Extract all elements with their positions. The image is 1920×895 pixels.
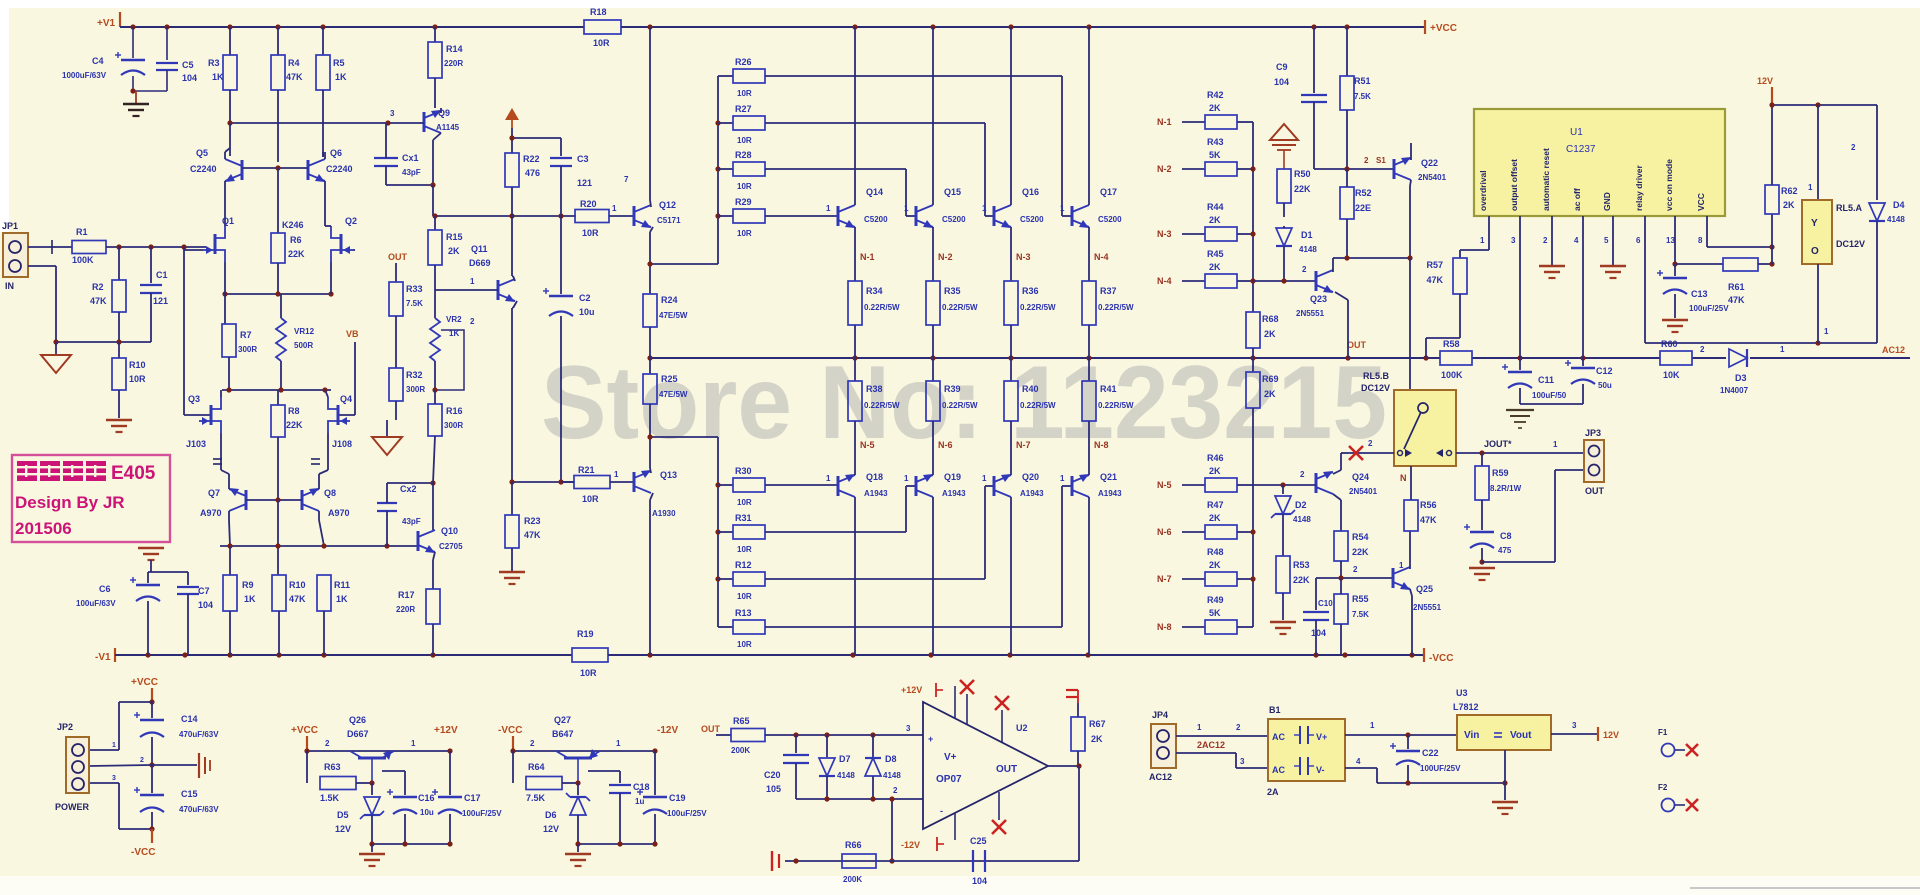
transistor Q8 bbox=[301, 490, 304, 510]
svg-text:2N5401: 2N5401 bbox=[1418, 173, 1447, 182]
ground under C13 bbox=[1662, 319, 1688, 322]
wire U1 pin5 stub bbox=[1612, 216, 1614, 265]
svg-text:Q11: Q11 bbox=[471, 244, 488, 254]
svg-text:47K: 47K bbox=[1420, 515, 1437, 525]
wire jp2 pin1 path bbox=[119, 701, 152, 703]
capacitor C25 bbox=[972, 850, 974, 872]
svg-text:2: 2 bbox=[470, 317, 475, 326]
svg-text:B1: B1 bbox=[1269, 705, 1281, 715]
resistor R12 bbox=[718, 578, 733, 580]
connector JP4 bbox=[1151, 724, 1176, 768]
svg-text:50u: 50u bbox=[1598, 381, 1612, 390]
svg-text:U1: U1 bbox=[1570, 127, 1583, 138]
svg-text:C19: C19 bbox=[669, 793, 686, 803]
transistor Q13 bbox=[610, 481, 634, 483]
svg-text:C2240: C2240 bbox=[190, 164, 217, 174]
svg-text:C2: C2 bbox=[579, 293, 591, 303]
svg-text:R17: R17 bbox=[398, 590, 415, 600]
transistor Q18 bbox=[837, 476, 840, 496]
wire U1 pin4 to C12 bbox=[1582, 216, 1584, 358]
svg-text:R2: R2 bbox=[92, 282, 104, 292]
resistor R55 bbox=[1334, 594, 1348, 624]
svg-text:100uF/63V: 100uF/63V bbox=[76, 599, 116, 608]
svg-text:220R: 220R bbox=[444, 59, 463, 68]
transistor Q23 bbox=[1315, 271, 1318, 291]
svg-text:-: - bbox=[940, 806, 943, 816]
svg-text:R31: R31 bbox=[735, 513, 752, 523]
svg-text:AC: AC bbox=[1272, 765, 1285, 775]
svg-text:476: 476 bbox=[525, 168, 540, 178]
svg-text:10R: 10R bbox=[737, 136, 752, 145]
svg-text:4148: 4148 bbox=[1293, 515, 1311, 524]
resistor R42 bbox=[1182, 121, 1205, 123]
svg-text:R29: R29 bbox=[735, 197, 752, 207]
svg-text:R20: R20 bbox=[580, 199, 597, 209]
svg-text:JP4: JP4 bbox=[1152, 710, 1168, 720]
svg-text:104: 104 bbox=[972, 876, 987, 886]
svg-text:R6: R6 bbox=[290, 235, 302, 245]
relay switch symbol bbox=[1418, 403, 1428, 413]
svg-text:0.22R/5W: 0.22R/5W bbox=[864, 303, 900, 312]
svg-text:22K: 22K bbox=[1294, 184, 1311, 194]
svg-text:Q9: Q9 bbox=[438, 108, 450, 118]
diode D1 bbox=[1276, 228, 1292, 246]
svg-text:R42: R42 bbox=[1207, 90, 1224, 100]
wire node row y123 bbox=[230, 122, 419, 124]
svg-text:R46: R46 bbox=[1207, 453, 1224, 463]
resistor R66 bbox=[842, 854, 876, 868]
svg-text:100K: 100K bbox=[1441, 370, 1463, 380]
transistor Q7 bbox=[245, 490, 248, 510]
ground mid triangle bbox=[386, 420, 388, 437]
transistor Q14 bbox=[837, 206, 840, 226]
svg-text:2: 2 bbox=[1368, 439, 1373, 448]
svg-text:2K: 2K bbox=[1209, 215, 1221, 225]
svg-text:Q1: Q1 bbox=[222, 216, 234, 226]
svg-text:VR2: VR2 bbox=[446, 315, 462, 324]
capacitor C2 bbox=[560, 216, 562, 294]
wire servo lower row bbox=[796, 798, 892, 800]
resistor R5 bbox=[322, 27, 324, 55]
svg-text:-VCC: -VCC bbox=[1429, 653, 1453, 664]
svg-text:R30: R30 bbox=[735, 466, 752, 476]
svg-text:V+: V+ bbox=[944, 752, 957, 763]
svg-text:2K: 2K bbox=[1209, 466, 1221, 476]
resistor R37 emitter bbox=[1088, 240, 1090, 281]
diode D3 bbox=[1729, 349, 1747, 367]
svg-text:R60: R60 bbox=[1661, 339, 1678, 349]
svg-text:N-6: N-6 bbox=[1157, 527, 1172, 537]
svg-text:12V: 12V bbox=[335, 824, 351, 834]
ground U1 pin2 bbox=[1539, 265, 1565, 268]
resistor R45 bbox=[1182, 280, 1205, 282]
svg-text:N-1: N-1 bbox=[1157, 117, 1172, 127]
resistor R30 bbox=[718, 484, 733, 486]
svg-text:1: 1 bbox=[616, 739, 621, 748]
potentiometer VR2 bbox=[434, 290, 436, 318]
svg-text:1: 1 bbox=[112, 742, 116, 749]
svg-text:C5200: C5200 bbox=[942, 215, 966, 224]
svg-text:2: 2 bbox=[325, 739, 330, 748]
wire R29 to Q14 base bbox=[765, 215, 838, 217]
connector JP1 bbox=[3, 233, 28, 277]
svg-text:C8: C8 bbox=[1500, 531, 1512, 541]
svg-text:104: 104 bbox=[182, 73, 197, 83]
svg-text:Q10: Q10 bbox=[441, 526, 458, 536]
wire B1 V+ out bbox=[1345, 734, 1457, 736]
svg-text:470uF/63V: 470uF/63V bbox=[179, 730, 219, 739]
resistor R46 bbox=[1182, 484, 1205, 486]
resistor R3 bbox=[229, 27, 231, 55]
svg-text:R22: R22 bbox=[523, 154, 540, 164]
svg-text:Vin: Vin bbox=[1464, 730, 1479, 741]
transistor Q21 bbox=[1071, 476, 1074, 496]
svg-text:12V: 12V bbox=[1603, 730, 1619, 740]
svg-text:Design By JR: Design By JR bbox=[15, 493, 125, 512]
wire emitter row y546 bbox=[220, 545, 418, 547]
svg-text:104: 104 bbox=[1311, 628, 1326, 638]
svg-text:R47: R47 bbox=[1207, 500, 1224, 510]
svg-text:DC12V: DC12V bbox=[1361, 383, 1390, 393]
svg-text:N-5: N-5 bbox=[1157, 480, 1172, 490]
resistor R32 bbox=[389, 368, 403, 401]
svg-text:Q25: Q25 bbox=[1416, 584, 1433, 594]
svg-text:R51: R51 bbox=[1354, 76, 1371, 86]
svg-text:100uF/50: 100uF/50 bbox=[1532, 391, 1567, 400]
svg-text:output offset: output offset bbox=[1509, 159, 1519, 211]
junction dots OUT rail bbox=[647, 355, 652, 360]
svg-text:220R: 220R bbox=[396, 605, 415, 614]
svg-text:D7: D7 bbox=[839, 754, 851, 764]
svg-text:1: 1 bbox=[612, 204, 617, 213]
svg-text:1: 1 bbox=[1824, 327, 1829, 336]
ground under R53 bbox=[1270, 621, 1296, 624]
svg-text:R59: R59 bbox=[1492, 468, 1509, 478]
no-connect stub bottom bbox=[998, 792, 1000, 820]
resistor R53 bbox=[1276, 556, 1290, 593]
svg-text:100uF/25V: 100uF/25V bbox=[462, 809, 502, 818]
wire Q13 emitter to ladder bbox=[650, 436, 718, 438]
wire relay drive column bbox=[1409, 258, 1411, 390]
svg-text:Q6: Q6 bbox=[330, 148, 342, 158]
svg-text:100K: 100K bbox=[72, 255, 94, 265]
svg-text:C2705: C2705 bbox=[439, 542, 463, 551]
transistor Q9 bbox=[423, 112, 426, 132]
transistor Q12 bbox=[609, 215, 634, 217]
svg-text:C5: C5 bbox=[182, 60, 194, 70]
resistor R19 bbox=[572, 648, 608, 662]
svg-text:R16: R16 bbox=[446, 406, 463, 416]
svg-text:475: 475 bbox=[1498, 546, 1512, 555]
svg-text:0.22R/5W: 0.22R/5W bbox=[864, 401, 900, 410]
svg-text:0.22R/5W: 0.22R/5W bbox=[1020, 303, 1056, 312]
svg-text:7.5K: 7.5K bbox=[1354, 92, 1371, 101]
wire B1 V- out bbox=[1345, 767, 1377, 769]
resistor R40 emitter bbox=[1010, 358, 1012, 381]
svg-text:4148: 4148 bbox=[883, 771, 901, 780]
wire U1 pin3 to OUT rail bbox=[1519, 216, 1521, 358]
svg-text:3: 3 bbox=[1511, 236, 1516, 245]
transistor Q20 bbox=[993, 476, 996, 496]
svg-text:+VCC: +VCC bbox=[131, 677, 158, 688]
svg-text:47K: 47K bbox=[90, 296, 107, 306]
wire Q25 base row bbox=[1316, 577, 1393, 579]
svg-text:-V1: -V1 bbox=[95, 652, 111, 663]
svg-text:0.22R/5W: 0.22R/5W bbox=[942, 401, 978, 410]
svg-text:R44: R44 bbox=[1207, 202, 1224, 212]
svg-text:47K: 47K bbox=[1728, 295, 1745, 305]
svg-text:D8: D8 bbox=[885, 754, 897, 764]
svg-text:2N5551: 2N5551 bbox=[1296, 309, 1325, 318]
svg-text:1: 1 bbox=[1197, 723, 1202, 732]
svg-text:104: 104 bbox=[198, 600, 213, 610]
svg-text:47E/5W: 47E/5W bbox=[659, 390, 688, 399]
wire feedback loop bbox=[1078, 766, 1080, 861]
svg-text:R66: R66 bbox=[845, 840, 862, 850]
svg-text:3: 3 bbox=[1240, 757, 1245, 766]
wire R12 to Q20 base bbox=[765, 578, 985, 580]
svg-text:Q4: Q4 bbox=[340, 394, 352, 404]
svg-text:automatic reset: automatic reset bbox=[1541, 148, 1551, 211]
resistor R59 bbox=[1481, 453, 1483, 466]
svg-text:J103: J103 bbox=[186, 439, 206, 449]
svg-text:R64: R64 bbox=[528, 762, 545, 772]
svg-text:R40: R40 bbox=[1022, 384, 1039, 394]
svg-text:1: 1 bbox=[904, 204, 909, 213]
svg-text:N-2: N-2 bbox=[938, 252, 953, 262]
wire R21 node row bbox=[512, 481, 574, 483]
capacitor C3 bbox=[560, 138, 562, 156]
svg-text:R1: R1 bbox=[76, 227, 88, 237]
svg-text:47K: 47K bbox=[286, 72, 303, 82]
svg-text:N-8: N-8 bbox=[1157, 622, 1172, 632]
svg-text:2: 2 bbox=[1543, 236, 1548, 245]
svg-text:201506: 201506 bbox=[15, 519, 72, 538]
svg-text:C5200: C5200 bbox=[864, 215, 888, 224]
capacitor C7 bbox=[187, 572, 189, 585]
svg-text:13: 13 bbox=[1666, 236, 1675, 245]
svg-text:R27: R27 bbox=[735, 104, 752, 114]
resistor R23 bbox=[511, 482, 513, 515]
resistor R60 bbox=[1660, 351, 1692, 365]
svg-text:C5171: C5171 bbox=[657, 216, 681, 225]
resistor R64 bbox=[512, 751, 514, 783]
svg-text:Q3: Q3 bbox=[188, 394, 200, 404]
resistor R11 middle bbox=[272, 575, 286, 611]
svg-text:2: 2 bbox=[1236, 723, 1241, 732]
svg-text:N-7: N-7 bbox=[1157, 574, 1172, 584]
svg-text:AC12: AC12 bbox=[1882, 345, 1905, 355]
wire JP1 pin1 to R1 bbox=[28, 246, 72, 248]
wire Q12 emitter to ladder bbox=[650, 263, 718, 265]
svg-text:Q23: Q23 bbox=[1310, 294, 1327, 304]
svg-text:N-4: N-4 bbox=[1157, 276, 1172, 286]
resistor R24 bbox=[643, 294, 657, 327]
capacitor C9 bbox=[1313, 27, 1315, 93]
svg-text:N-1: N-1 bbox=[860, 252, 875, 262]
svg-text:C25: C25 bbox=[970, 836, 987, 846]
wire jp2 mid node bbox=[149, 762, 154, 767]
svg-text:R9: R9 bbox=[242, 580, 254, 590]
svg-text:3: 3 bbox=[112, 775, 116, 782]
chassis ground jp2 bbox=[152, 764, 197, 766]
ground input triangle bbox=[55, 342, 57, 355]
svg-text:0.22R/5W: 0.22R/5W bbox=[942, 303, 978, 312]
svg-text:ac off: ac off bbox=[1572, 188, 1582, 211]
svg-text:R65: R65 bbox=[733, 716, 750, 726]
op-amp U2 OP07 bbox=[923, 702, 1048, 829]
svg-text:2: 2 bbox=[530, 739, 535, 748]
ground under U3 bbox=[1492, 801, 1518, 804]
resistor R61 bbox=[1675, 263, 1723, 265]
svg-text:2K: 2K bbox=[1209, 560, 1221, 570]
svg-text:R24: R24 bbox=[661, 295, 678, 305]
svg-text:R49: R49 bbox=[1207, 595, 1224, 605]
svg-text:2K: 2K bbox=[1264, 389, 1276, 399]
svg-text:1: 1 bbox=[470, 277, 475, 286]
svg-text:R48: R48 bbox=[1207, 547, 1224, 557]
svg-text:D669: D669 bbox=[469, 258, 491, 268]
bridge rectifier B1 bbox=[1268, 719, 1345, 781]
power flag mid arrow bbox=[1270, 124, 1298, 140]
svg-text:D2: D2 bbox=[1295, 500, 1307, 510]
svg-text:7: 7 bbox=[624, 175, 629, 184]
svg-text:R68: R68 bbox=[1262, 314, 1279, 324]
svg-text:R21: R21 bbox=[578, 465, 595, 475]
connector JP2 bbox=[66, 737, 89, 793]
svg-text:2: 2 bbox=[1300, 470, 1305, 479]
svg-text:2K: 2K bbox=[1209, 513, 1221, 523]
resistor R48 bbox=[1182, 578, 1205, 580]
svg-text:VR12: VR12 bbox=[294, 327, 315, 336]
capacitor C18 bbox=[588, 770, 620, 772]
svg-text:121: 121 bbox=[577, 178, 592, 188]
no-connect stubs top bbox=[966, 694, 968, 724]
svg-text:121: 121 bbox=[153, 296, 168, 306]
resistor R39 emitter bbox=[932, 358, 934, 381]
svg-text:R36: R36 bbox=[1022, 286, 1039, 296]
transistor Q19 bbox=[915, 476, 918, 496]
resistor R47 bbox=[1182, 531, 1205, 533]
svg-text:C7: C7 bbox=[198, 586, 210, 596]
ground under R23 bbox=[499, 571, 525, 574]
resistor R14 bbox=[434, 27, 436, 42]
svg-text:R7: R7 bbox=[240, 330, 252, 340]
capacitor C4 bbox=[132, 27, 134, 58]
svg-text:6: 6 bbox=[1636, 236, 1641, 245]
svg-text:-12V: -12V bbox=[657, 725, 678, 736]
svg-text:Q24: Q24 bbox=[1352, 472, 1369, 482]
svg-text:300R: 300R bbox=[406, 385, 425, 394]
svg-text:Q5: Q5 bbox=[196, 148, 208, 158]
wire bottom rail left bbox=[115, 654, 572, 656]
svg-text:A1943: A1943 bbox=[864, 489, 888, 498]
resistor R15 bbox=[434, 216, 436, 230]
svg-text:105: 105 bbox=[766, 784, 781, 794]
power flag above R22 bbox=[505, 108, 519, 120]
svg-text:0.22R/5W: 0.22R/5W bbox=[1020, 401, 1056, 410]
svg-text:100uF/25V: 100uF/25V bbox=[667, 809, 707, 818]
svg-text:7.5K: 7.5K bbox=[526, 793, 546, 803]
svg-text:500R: 500R bbox=[294, 341, 313, 350]
resistor R4 bbox=[277, 27, 279, 55]
capacitor C11 bbox=[1519, 358, 1521, 370]
svg-text:L7812: L7812 bbox=[1453, 702, 1479, 712]
svg-text:2: 2 bbox=[1851, 143, 1856, 152]
svg-text:R62: R62 bbox=[1781, 186, 1798, 196]
svg-text:1K: 1K bbox=[336, 594, 348, 604]
zener D5 bbox=[364, 797, 380, 815]
resistor R63 bbox=[306, 751, 308, 783]
svg-text:1: 1 bbox=[904, 474, 909, 483]
svg-text:10R: 10R bbox=[129, 374, 146, 384]
svg-text:2: 2 bbox=[1302, 265, 1307, 274]
svg-text:4: 4 bbox=[1574, 236, 1579, 245]
wire VR2 bottom node bbox=[432, 387, 437, 392]
svg-text:JP2: JP2 bbox=[57, 722, 73, 732]
svg-text:2AC12: 2AC12 bbox=[1197, 740, 1225, 750]
wire U1 pin1 stub bbox=[1488, 216, 1490, 250]
svg-text:2K: 2K bbox=[1091, 734, 1103, 744]
svg-text:R38: R38 bbox=[866, 384, 883, 394]
power flag 12V out bbox=[1597, 727, 1599, 741]
svg-text:C16: C16 bbox=[418, 793, 435, 803]
ground above C6 bbox=[138, 547, 164, 550]
svg-text:VCC: VCC bbox=[1696, 193, 1706, 211]
svg-text:A1943: A1943 bbox=[1098, 489, 1122, 498]
svg-text:10R: 10R bbox=[593, 38, 610, 48]
svg-text:7.5K: 7.5K bbox=[406, 299, 423, 308]
resistor R31 bbox=[718, 531, 733, 533]
resistor R68 bbox=[1246, 312, 1260, 348]
svg-text:S1: S1 bbox=[1376, 156, 1386, 165]
svg-text:8.2R/1W: 8.2R/1W bbox=[1490, 484, 1522, 493]
red return symbol bbox=[771, 851, 773, 871]
svg-text:R69: R69 bbox=[1262, 374, 1279, 384]
transistor Q16 bbox=[993, 206, 996, 226]
svg-text:A970: A970 bbox=[328, 508, 350, 518]
svg-text:10R: 10R bbox=[737, 89, 752, 98]
wire N ladder rail upper bbox=[1252, 122, 1254, 312]
wire U1 pin6 relay return bbox=[1644, 216, 1646, 343]
svg-text:C1: C1 bbox=[156, 270, 168, 280]
wire R27 to Q16 base bbox=[765, 122, 985, 124]
resistor R6 bbox=[277, 168, 279, 233]
transistor Q10 bbox=[417, 531, 420, 551]
potentiometer VR12 bbox=[276, 318, 286, 361]
svg-text:R57: R57 bbox=[1426, 260, 1443, 270]
diode D2 zener bbox=[1282, 485, 1284, 494]
svg-text:43pF: 43pF bbox=[402, 168, 421, 177]
relay RL5-B box bbox=[1394, 390, 1456, 466]
wire JP1 pin2 down bbox=[28, 265, 56, 267]
svg-text:5K: 5K bbox=[1209, 608, 1221, 618]
capacitor C22 bbox=[1407, 735, 1409, 749]
svg-text:1000uF/63V: 1000uF/63V bbox=[62, 71, 107, 80]
svg-text:10R: 10R bbox=[737, 229, 752, 238]
svg-text:3: 3 bbox=[1572, 721, 1577, 730]
svg-text:C11: C11 bbox=[1538, 375, 1554, 385]
capacitor C14 bbox=[140, 719, 164, 721]
svg-text:7.5K: 7.5K bbox=[1352, 610, 1369, 619]
transistor Q1 jfet bbox=[214, 234, 217, 254]
svg-text:0.22R/5W: 0.22R/5W bbox=[1098, 303, 1134, 312]
svg-text:JP1: JP1 bbox=[2, 221, 18, 231]
svg-text:N-6: N-6 bbox=[938, 440, 953, 450]
capacitor C6 bbox=[147, 572, 149, 583]
resistor R1 bbox=[72, 241, 106, 254]
svg-text:10u: 10u bbox=[420, 808, 434, 817]
